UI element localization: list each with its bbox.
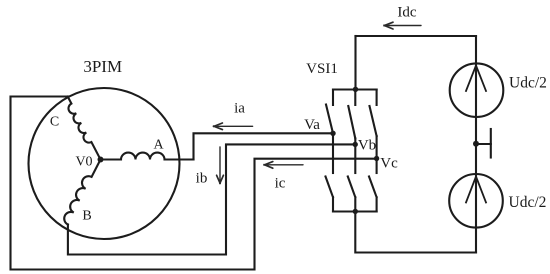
svg-text:Udc/2: Udc/2	[509, 75, 547, 92]
switch S6 lower leg B	[348, 177, 356, 212]
switch S2 lower leg C	[369, 177, 377, 212]
node V0	[98, 157, 104, 163]
wire leg B mid vertical	[354, 139, 356, 174]
node bottom bus junction	[353, 209, 358, 214]
current arrow ib	[219, 147, 221, 183]
svg-text:Idc: Idc	[397, 5, 416, 21]
node top bus junction	[353, 87, 358, 92]
switch S5 upper leg C	[370, 90, 377, 137]
wire DC link vertical	[475, 36, 477, 253]
node DC midpoint	[473, 141, 479, 147]
node Va	[330, 131, 335, 136]
svg-text:VSI1: VSI1	[306, 61, 338, 77]
svg-text:Vb: Vb	[358, 138, 376, 154]
svg-text:V0: V0	[75, 155, 92, 170]
source U2 arrow	[466, 177, 486, 203]
svg-text:ic: ic	[275, 176, 286, 192]
wire leg A mid vertical	[332, 133, 334, 173]
current arrow ic	[265, 164, 303, 166]
wire top DC rail with Idc	[356, 35, 477, 37]
wire leg C mid vertical	[376, 136, 378, 173]
wire bottom bus of VSI1	[333, 210, 377, 212]
wire top bus of VSI1	[333, 88, 377, 90]
wire phase A to node Va	[194, 133, 334, 159]
svg-text:A: A	[153, 138, 164, 153]
switch S1 upper leg A	[326, 90, 333, 134]
winding C (phase C inductor)	[68, 97, 101, 160]
wire VSI bottom return to DC link	[355, 212, 476, 253]
winding A (phase A inductor)	[101, 153, 194, 160]
DC midpoint tap stub	[476, 143, 491, 145]
svg-text:Udc/2: Udc/2	[509, 194, 547, 211]
source U1 Udc/2 upper	[450, 63, 504, 117]
wire phase B to node Vb	[68, 144, 355, 254]
svg-text:C: C	[50, 115, 59, 130]
source U2 Udc/2 lower	[449, 174, 503, 228]
svg-text:ia: ia	[234, 100, 245, 116]
source U1 arrow	[466, 66, 486, 92]
switch S4 lower leg A	[326, 177, 334, 212]
svg-text:Vc: Vc	[380, 156, 398, 172]
DC midpoint tap bar	[490, 129, 492, 158]
current arrow Idc	[385, 25, 421, 27]
node Vb	[353, 142, 358, 147]
svg-text:ib: ib	[196, 171, 208, 187]
node Vc	[374, 156, 379, 161]
svg-text:B: B	[82, 209, 91, 224]
switch S3 upper leg B	[348, 90, 355, 139]
winding B (phase B inductor)	[64, 160, 100, 225]
wire phase C outer loop to node Vc	[11, 97, 377, 270]
svg-text:Va: Va	[304, 117, 320, 133]
svg-text:3PIM: 3PIM	[83, 57, 122, 76]
wire VSI feed from top rail	[354, 36, 356, 90]
current arrow ia	[215, 125, 253, 127]
motor M1 stator circle (3PIM)	[29, 88, 180, 239]
